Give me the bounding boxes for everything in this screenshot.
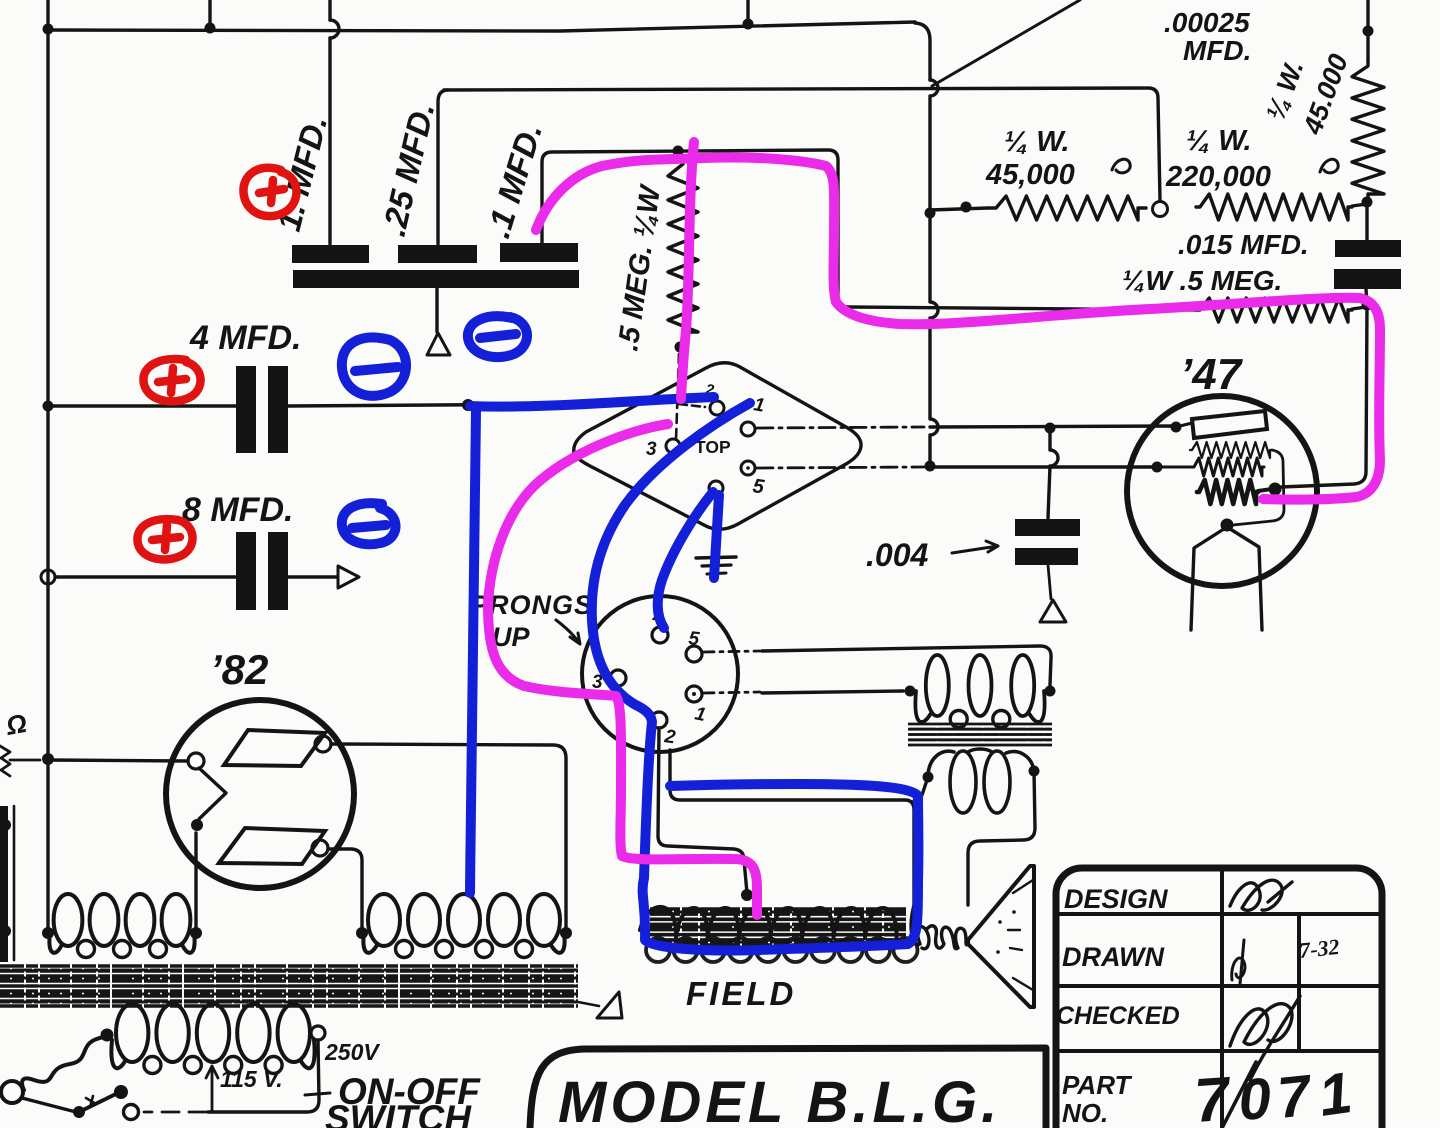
svg-text:45,000: 45,000 xyxy=(985,159,1075,191)
svg-text:PART: PART xyxy=(1062,1070,1132,1100)
svg-text:8 MFD.: 8 MFD. xyxy=(182,491,293,529)
svg-text:DESIGN: DESIGN xyxy=(1064,884,1168,914)
svg-text:.00025: .00025 xyxy=(1164,7,1250,38)
svg-text:.015 MFD.: .015 MFD. xyxy=(1178,229,1309,260)
svg-text:’47: ’47 xyxy=(1180,350,1244,399)
svg-text:NO.: NO. xyxy=(1062,1098,1108,1128)
svg-text:4 MFD.: 4 MFD. xyxy=(189,319,301,357)
svg-text:¼ W.: ¼ W. xyxy=(1186,125,1252,157)
svg-text:0: 0 xyxy=(1236,1066,1273,1128)
svg-text:¼W .5 MEG.: ¼W .5 MEG. xyxy=(1122,265,1282,296)
svg-text:220,000: 220,000 xyxy=(1165,161,1271,193)
svg-text:3: 3 xyxy=(646,439,657,460)
svg-text:MODEL B.L.G.: MODEL B.L.G. xyxy=(558,1070,1001,1128)
svg-text:DRAWN: DRAWN xyxy=(1062,942,1164,972)
svg-text:115 V.: 115 V. xyxy=(220,1066,283,1092)
svg-text:FIELD: FIELD xyxy=(686,975,796,1012)
svg-text:7-32: 7-32 xyxy=(1298,934,1341,963)
svg-text:UP: UP xyxy=(492,622,530,652)
svg-text:MFD.: MFD. xyxy=(1183,35,1251,66)
svg-text:’82: ’82 xyxy=(210,646,268,693)
svg-text:CHECKED: CHECKED xyxy=(1056,1002,1180,1030)
svg-text:¼ W.: ¼ W. xyxy=(1004,126,1070,158)
svg-text:250V: 250V xyxy=(324,1039,380,1065)
svg-text:SWITCH: SWITCH xyxy=(325,1098,472,1128)
svg-text:.004: .004 xyxy=(866,537,928,573)
